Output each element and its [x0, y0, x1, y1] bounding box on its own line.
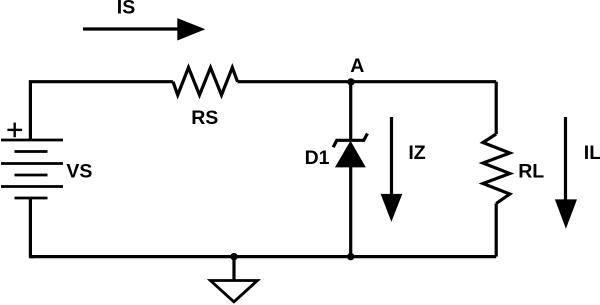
junction dot D1 bottom: [347, 253, 354, 260]
current arrow IL: [555, 117, 577, 229]
wire top-right corner down to RL: [495, 82, 498, 134]
wire node A to top-right corner: [351, 80, 497, 83]
battery VS: [1, 140, 63, 198]
resistor RL: [483, 134, 510, 204]
ground: [210, 257, 257, 302]
wire node A down to D1: [349, 82, 352, 141]
svg-text:IZ: IZ: [408, 142, 425, 164]
svg-text:VS: VS: [66, 161, 92, 183]
svg-text:RL: RL: [518, 161, 544, 183]
svg-text:D1: D1: [305, 147, 330, 169]
svg-text:IL: IL: [584, 142, 600, 164]
current arrow IZ: [381, 117, 403, 222]
node A junction dot: [347, 78, 354, 85]
wire bottom rail: [30, 255, 496, 258]
wire RS to node A: [238, 80, 351, 83]
current arrow IS: [83, 18, 205, 40]
svg-text:IS: IS: [117, 0, 135, 18]
zener diode D1: [333, 134, 367, 168]
battery + polarity sign: [7, 123, 22, 138]
wire RL to bottom-right corner: [495, 204, 498, 257]
wire D1 to bottom rail: [349, 167, 352, 257]
wire battery+ to RS: [30, 82, 173, 140]
svg-text:A: A: [350, 55, 364, 77]
wire battery- to bottom-left corner: [30, 198, 34, 257]
junction dot at ground tap: [230, 253, 237, 260]
svg-text:RS: RS: [191, 107, 218, 129]
resistor RS: [173, 68, 238, 96]
